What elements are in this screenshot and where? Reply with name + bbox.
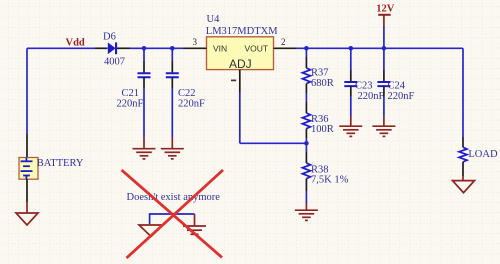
wire: right rail down to load: [462, 48, 464, 137]
ground under battery (triangle): [16, 202, 38, 225]
svg-text:VIN: VIN: [213, 43, 227, 53]
wire: battery to ground: [26, 179, 28, 202]
svg-text:7,5K 1%: 7,5K 1%: [311, 175, 349, 186]
resistor R38: [302, 143, 348, 203]
junction dots on rail: [142, 46, 387, 51]
svg-text:LOAD: LOAD: [468, 149, 498, 160]
svg-text:220nF: 220nF: [388, 91, 415, 102]
crossed-out ground pair: [122, 170, 224, 258]
svg-text:220nF: 220nF: [117, 98, 144, 109]
capacitor C21: [117, 48, 151, 137]
ground under LOAD (triangle): [453, 176, 475, 193]
svg-text:ADJ: ADJ: [229, 57, 252, 71]
pin 2 (VOUT): [274, 47, 297, 49]
node: divider junction: [304, 141, 309, 146]
diode D6 symbol: [108, 42, 117, 54]
svg-text:680R: 680R: [311, 78, 334, 89]
svg-text:220nF: 220nF: [358, 91, 385, 102]
battery BT: box: [19, 134, 84, 179]
ground under C24: [372, 116, 395, 136]
ground under C21: [133, 137, 156, 159]
earth ground (right): [183, 226, 206, 234]
ground under C23: [339, 116, 362, 136]
svg-text:BATTERY: BATTERY: [37, 158, 84, 169]
svg-text:Vdd: Vdd: [66, 38, 85, 49]
resistor R37: [302, 48, 333, 102]
svg-text:2: 2: [281, 37, 286, 47]
power port 12V: [376, 4, 395, 49]
svg-text:D6: D6: [103, 32, 116, 43]
capacitor C24: [377, 48, 414, 116]
svg-text:100R: 100R: [311, 124, 334, 135]
wire: main top rail blue segments: [27, 47, 463, 49]
svg-text:220nF: 220nF: [178, 98, 205, 109]
node: diode left pin: [95, 47, 108, 49]
svg-text:3: 3: [193, 37, 198, 47]
resistor R36: [302, 102, 333, 143]
svg-text:LM317MDTXM: LM317MDTXM: [206, 26, 278, 37]
red X cross-out: [122, 170, 224, 258]
svg-text:Doesn't exist anymore: Doesn't exist anymore: [127, 192, 221, 203]
ground under C22: [161, 137, 184, 159]
wire: ADJ down and right to divider: [239, 93, 241, 144]
wire: left vertical from rail to battery: [26, 48, 28, 134]
svg-text:VOUT: VOUT: [245, 43, 269, 53]
svg-text:U4: U4: [207, 14, 221, 25]
capacitor C22: [166, 48, 205, 137]
pin 1 (ADJ): [239, 70, 241, 93]
ground arrow (left): [139, 225, 163, 237]
op-amp U1: regulator U4 box: [207, 37, 274, 71]
capacitor C23: [344, 48, 384, 116]
pin 3 (VIN): [183, 47, 207, 49]
svg-text:C24: C24: [388, 81, 406, 92]
ground under R38: [295, 203, 318, 220]
svg-text:12V: 12V: [376, 4, 395, 15]
svg-text:C23: C23: [355, 81, 373, 92]
resistor LOAD: [459, 137, 498, 176]
node: diode right pin: [117, 47, 130, 49]
svg-text:4007: 4007: [104, 57, 125, 68]
